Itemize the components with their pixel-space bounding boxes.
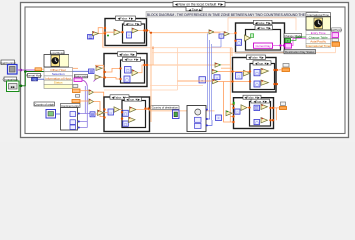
wire orange from terminal 2 [80, 100, 89, 102]
add triangle left of A [93, 31, 99, 35]
node blue inside C left [108, 109, 114, 115]
case B selector False [118, 52, 137, 57]
case F selector False [243, 95, 261, 99]
svg-text:◀False ▼▶: ◀False ▼▶ [119, 53, 135, 57]
svg-text:▢: ▢ [237, 41, 240, 45]
label International Time [306, 13, 331, 17]
terminal I16 small gray [76, 95, 80, 98]
terminal DBL orange far right [332, 42, 340, 46]
wire orange long horizontal y=52.7 [152, 46, 336, 52]
listbox control icon (Country of origin) [46, 110, 56, 119]
case selector: Now on the local [173, 2, 225, 7]
wires into case C [95, 110, 122, 115]
wire orange elbows into case C [94, 92, 106, 116]
add triangle left of B lower [95, 75, 101, 80]
unbundle row Selection [44, 72, 73, 77]
svg-text:□: □ [110, 111, 112, 115]
add triangle in F bottom [261, 118, 268, 123]
add triangle left of B upper [96, 66, 102, 71]
row Asia Pacific [306, 39, 331, 44]
add triangle inside C left [114, 107, 120, 113]
case A inner selector True [124, 22, 141, 26]
svg-text:AddTN(1:4: AddTN(1:4 [330, 29, 342, 32]
label Comparison [3, 77, 19, 81]
wire violet from CalcControl [17, 69, 35, 71]
svg-text:▢: ▢ [255, 83, 258, 87]
case E selector False [247, 55, 266, 60]
svg-text:□: □ [238, 75, 240, 79]
wire magenta Current Day to International [273, 33, 333, 46]
wire violet vertical pair [85, 86, 87, 122]
add triangle mid top 1 [209, 30, 214, 34]
label Continent entry [61, 104, 81, 108]
local variable Current Day [254, 43, 273, 48]
terminal orange 2 [72, 100, 80, 103]
wires orange into case B [95, 65, 121, 79]
conversion node blue in C bottom [123, 121, 129, 127]
bundle node [187, 106, 206, 132]
numeric terminal blue left of B [89, 69, 95, 74]
svg-text:Country of origin: Country of origin [34, 102, 54, 106]
terminal magenta right [332, 33, 339, 38]
label Country of origin [34, 102, 55, 106]
case structure F inner [250, 102, 271, 127]
terminal NUM small gray [73, 85, 78, 88]
subVI Local Time (clock icon) [44, 55, 69, 68]
add triangle in E bottom [261, 80, 269, 85]
comparison control icon [7, 81, 20, 92]
add triangle below B 1 [89, 90, 94, 95]
svg-text:◀True ▼▶: ◀True ▼▶ [257, 26, 272, 30]
node junctions case A border [104, 27, 106, 29]
label Destination Day Status [284, 50, 316, 55]
wire orange into case A [98, 28, 122, 48]
case D inner selector True [255, 26, 273, 31]
row Entry Time [306, 31, 331, 36]
subVI International Time icon [306, 17, 331, 30]
unbundle node bottom-left [61, 108, 78, 131]
unbundle row Offset Hour [44, 68, 73, 73]
wires into case E [218, 72, 251, 82]
equals node blue bottom [216, 115, 222, 121]
local variable Status (pink) [74, 78, 82, 81]
equals node blue mid center [199, 77, 206, 83]
wires blue from unbundle [78, 114, 91, 128]
svg-text:Change Mode: Change Mode [284, 34, 302, 38]
control terminal CalcControl [8, 65, 18, 75]
unbundle row empty [44, 84, 73, 88]
conversion node blue in C top [123, 110, 129, 116]
numeric terminal blue left of A [88, 35, 94, 40]
local variable Day pink small [285, 44, 292, 49]
svg-text:◀False ▼▶: ◀False ▼▶ [248, 56, 264, 60]
unbundle row Status [44, 80, 73, 85]
case F inner selector True [251, 99, 270, 103]
conversion node blue in E bottom [254, 81, 260, 87]
numeric constant I32 [32, 77, 38, 81]
svg-text:BLOCK DIAGRAM - THE DIFFERENCE: BLOCK DIAGRAM - THE DIFFERENCES IN TIME … [147, 13, 318, 17]
svg-text:▢: ▢ [124, 112, 127, 116]
wire blue vertical pair [207, 34, 221, 121]
wire case B output [138, 65, 215, 73]
while loop interior [20, 2, 349, 138]
banner label [146, 12, 318, 18]
svg-text:▢: ▢ [126, 69, 130, 73]
node violet tunnel [20, 69, 23, 72]
wire orange tunnels right of F [273, 108, 280, 120]
add triangle bottom mid [226, 111, 232, 116]
conversion node blue in A [127, 32, 132, 38]
svg-text:◀ Now on the local; Default ▼▶: ◀ Now on the local; Default ▼▶ [175, 3, 224, 7]
svg-text:◀True ▼▶: ◀True ▼▶ [255, 61, 270, 65]
equals node blue mid top [219, 34, 224, 39]
conversion node blue in B bottom [124, 76, 130, 82]
equals node blue mid center b [214, 75, 220, 80]
label AddTN [330, 28, 342, 32]
wires blue from bundle [206, 110, 212, 126]
wire green boolean to Change Table [291, 37, 307, 40]
add triangle in E left [244, 70, 251, 76]
case selector: True [186, 7, 202, 12]
svg-text:◀True ▼▶: ◀True ▼▶ [253, 99, 267, 103]
add triangle in C top [130, 107, 137, 113]
add triangle in C bottom [129, 117, 136, 123]
wire blue Selection row to icon [73, 70, 89, 72]
listbox control icon (Country of destination) [173, 110, 180, 119]
node blue left in D [236, 39, 242, 45]
svg-text:▢: ▢ [255, 121, 258, 125]
svg-text:□: □ [236, 110, 238, 114]
label Local Reset [50, 51, 65, 55]
add function triangle in A [132, 28, 138, 33]
case C inner selector True [125, 97, 142, 101]
svg-text:■■: ■■ [11, 85, 15, 89]
case structure D outer [236, 23, 285, 53]
add triangle on y65 bus [215, 63, 221, 67]
case structure E outer [233, 58, 277, 93]
wire violet arc to add triangle [94, 78, 98, 81]
wire orange Offset row stub [73, 67, 79, 69]
case A selector False [116, 16, 136, 21]
wire case C output [136, 110, 215, 111]
svg-text:◀False ▼▶: ◀False ▼▶ [118, 17, 134, 21]
wire orange horizontal y=85.4 [150, 84, 203, 86]
label Status entry [74, 74, 89, 78]
wire tri to inner F [247, 107, 250, 109]
wire violet arc from Status local [82, 80, 87, 86]
terminal NUM right of F [281, 102, 286, 106]
conversion node blue in F top [254, 105, 260, 110]
wire orange vertical bus 3 [104, 48, 213, 90]
add triangle below B 2 [89, 99, 94, 104]
add triangle in B [132, 70, 138, 76]
terminal orange 1 [73, 89, 81, 93]
add triangle left of C [98, 110, 104, 116]
wire orange into case D [214, 18, 296, 34]
numeric terminal blue left of C [90, 112, 95, 117]
add triangle mid center a [212, 69, 218, 74]
terminal NUM right of E [283, 64, 289, 68]
case structure A outer [105, 19, 147, 46]
wire orange vertical bus 2 [152, 48, 154, 65]
wire orange from terminal 1 [80, 90, 89, 92]
case structure B outer [104, 54, 147, 87]
add triangle in D [245, 35, 251, 41]
case D selector False [254, 20, 273, 25]
case structure C outer [104, 97, 150, 132]
case structure F outer [234, 98, 274, 129]
boolean constant green [285, 39, 291, 43]
comparison node green in D [251, 34, 254, 38]
svg-text:International Time: International Time [306, 44, 330, 48]
row Change Table [306, 35, 331, 40]
wire orange elbow mid [178, 80, 213, 82]
wire orange long horizontal y=47.7 [103, 47, 232, 49]
terminal DBL orange right of F [280, 107, 287, 110]
wire blue icon to unbundle [56, 113, 61, 115]
case E inner selector True [253, 61, 271, 66]
svg-text:◀ True ▶: ◀ True ▶ [188, 8, 202, 12]
add triangle in F top [261, 104, 268, 109]
svg-text:◀True ▼▶: ◀True ▼▶ [125, 58, 140, 62]
svg-text:=: = [220, 35, 222, 39]
case structure C inner [122, 101, 146, 128]
svg-text:◀False ▼▶: ◀False ▼▶ [255, 21, 271, 25]
svg-text:Destination Day Status: Destination Day Status [285, 50, 315, 54]
svg-text:Country of destination: Country of destination [152, 106, 179, 110]
svg-text:▢: ▢ [124, 123, 127, 127]
terminal gray right [332, 38, 339, 41]
node green tunnel inner [24, 70, 27, 73]
label Format Hour [26, 74, 42, 78]
terminal DBL orange right of E [282, 68, 290, 72]
svg-text:Status: Status [54, 81, 63, 85]
add triangle in E top [261, 68, 269, 74]
label Country of destination [151, 106, 180, 110]
svg-text:Current Day: Current Day [255, 44, 271, 48]
svg-text:▢: ▢ [255, 72, 258, 76]
svg-text:◀True ▼▶: ◀True ▼▶ [126, 22, 141, 26]
conversion node blue in E top [254, 70, 260, 76]
node blue inside F left [235, 109, 240, 114]
while loop border [21, 3, 349, 138]
wire orange tunnels right of E [277, 69, 282, 71]
svg-text:International Time: International Time [308, 13, 330, 17]
wire add triangle mid top feed [221, 48, 233, 122]
svg-text:=: = [216, 76, 218, 80]
node green tunnel case A [107, 35, 109, 37]
terminal DBL small orange feeding Offset [35, 68, 44, 71]
label Change Mode [284, 34, 302, 39]
big case structure border [25, 7, 345, 134]
row International Time out [306, 43, 331, 48]
case structure A inner [123, 24, 145, 43]
label CalcControl [0, 60, 15, 65]
unbundle row Information of Hour [44, 76, 73, 81]
wire orange vertical bus 1 [150, 33, 152, 122]
svg-text:=: = [218, 117, 220, 121]
node green tunnel on case F border [233, 102, 235, 105]
wires orange into case F [224, 82, 234, 123]
wire green from comparison [19, 72, 44, 86]
case structure B inner [121, 60, 145, 83]
conversion node blue in B top [125, 67, 132, 74]
wire I32 to rows [38, 78, 45, 80]
svg-text:◀True ▼▶: ◀True ▼▶ [126, 98, 140, 102]
add triangle inside A left [114, 29, 121, 35]
conversion node blue in F bottom [254, 119, 260, 125]
case B inner selector True [123, 57, 141, 62]
case structure E inner [250, 64, 275, 90]
svg-text:T: T [287, 39, 289, 43]
wire orange case A output [138, 31, 220, 33]
case C selector False [110, 95, 129, 100]
add triangle mid center b [213, 79, 219, 83]
case structure D inner [246, 30, 281, 51]
add triangle inside F left [241, 105, 247, 111]
svg-text:I32: I32 [33, 77, 37, 81]
node green junction [20, 85, 23, 88]
add triangle mid top 2 [224, 32, 230, 37]
svg-text:▢: ▢ [125, 78, 129, 82]
numeric terminal blue in E left [236, 73, 243, 80]
svg-text:Format Hour: Format Hour [26, 74, 42, 78]
